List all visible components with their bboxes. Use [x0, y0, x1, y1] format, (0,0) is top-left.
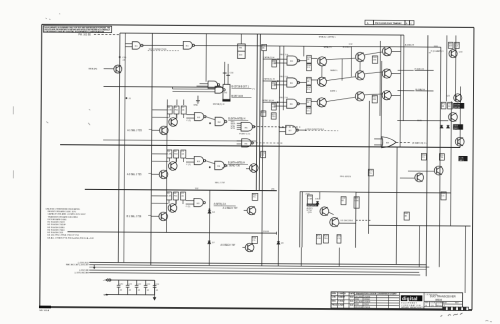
gate E5A	[241, 122, 255, 131]
svg-text:GND: GND	[193, 105, 198, 107]
spine third	[262, 51, 264, 266]
svg-text:1.5K: 1.5K	[354, 200, 359, 202]
svg-text:SEL J 737: SEL J 737	[215, 182, 226, 184]
svg-text:REC 1 H: REC 1 H	[280, 54, 289, 56]
rail H3 end tick	[275, 232, 277, 235]
svg-text:7.5K: 7.5K	[308, 198, 313, 200]
svg-text:C23: C23	[146, 284, 149, 286]
gate E2B	[215, 86, 225, 93]
E2B input b	[172, 90, 214, 92]
svg-text:.01: .01	[155, 290, 158, 292]
resistor box block-d	[337, 235, 341, 244]
resistor box r2 y149.5	[174, 150, 179, 158]
resistor box right-d	[448, 102, 453, 109]
resistor box gate row y60.3	[272, 60, 277, 67]
E5B output dashed	[252, 142, 283, 144]
power bus BK	[89, 270, 419, 272]
transistor pair-b y105.5	[159, 126, 168, 135]
gate E2A	[208, 81, 220, 88]
power bus +15V	[89, 262, 426, 264]
vertical rail S	[459, 86, 461, 147]
array vert c1	[341, 59, 343, 81]
svg-text:10-4: 10-4	[350, 296, 354, 299]
resistor box right-h	[441, 192, 446, 200]
array link c1c2 r1	[327, 58, 356, 60]
transistor block Q20	[320, 207, 329, 216]
TM100 stub	[240, 34, 242, 44]
transistor right Q15	[415, 173, 424, 182]
gate in b y191.5	[186, 203, 194, 205]
E8 input a	[374, 138, 383, 140]
svg-text:DEC6534: DEC6534	[355, 307, 362, 309]
transistor pair-b y191.5	[159, 212, 168, 221]
svg-text:C (1): C (1)	[186, 120, 191, 122]
A0 RECV base wire	[242, 246, 245, 248]
svg-text:A (MTA) 2 A: A (MTA) 2 A	[214, 203, 227, 206]
junction node rail	[126, 97, 128, 99]
capacitor C24	[153, 280, 157, 295]
svg-text:1.5K: 1.5K	[167, 153, 172, 155]
transistor array col2 row2	[355, 71, 364, 80]
E5B input 2	[237, 143, 242, 145]
distribution squares strip	[443, 307, 469, 310]
rail above H1	[103, 140, 256, 141]
gate E5B	[242, 139, 254, 147]
diode D2	[208, 241, 211, 244]
gate input wire c y60.3	[274, 62, 287, 64]
block out dashed	[356, 219, 371, 221]
gate E6 y103.4	[287, 99, 300, 108]
svg-text:DATE: DATE	[350, 292, 356, 295]
junction under gate y191.5	[209, 208, 211, 210]
svg-text:T.HOLT: T.HOLT	[338, 301, 345, 303]
node on rail A	[119, 56, 121, 58]
vertical rail H	[368, 101, 371, 234]
notes box top-left	[43, 26, 111, 34]
svg-text:D8 ALL OTHER PTS PIN 5=GND,PIN: D8 ALL OTHER PTS PIN 5=GND,PIN 10 A +10V	[47, 236, 94, 239]
cluster box drop a y149.5	[168, 158, 170, 162]
array wire in r3	[311, 100, 317, 102]
gate in a y105.5	[186, 114, 194, 116]
transistor right Q14	[434, 166, 443, 175]
transistor array col1 row3	[317, 98, 326, 107]
vertical rail G	[282, 46, 284, 110]
resistor box block-c	[323, 235, 328, 244]
bottom block outline	[300, 192, 356, 248]
mid horizontal rail H3	[68, 232, 277, 233]
gate E6 y60.3	[287, 56, 300, 65]
svg-text:BB A (H): BB A (H)	[89, 67, 98, 70]
power bus BD BM	[89, 273, 420, 275]
vertical rail N	[426, 35, 428, 276]
transistor pair-a y105.5	[169, 118, 178, 127]
resistor box array r1	[372, 56, 377, 64]
svg-text:1 MTB (1) H: 1 MTB (1) H	[263, 79, 275, 81]
transistor A1 SEND	[249, 164, 258, 173]
vertical rail A	[118, 33, 120, 262]
title block outer	[331, 292, 463, 309]
top horizontal rail	[120, 33, 404, 35]
svg-text:PW. 102 BD: PW. 102 BD	[78, 34, 91, 36]
svg-text:REC 2 H: REC 2 H	[279, 97, 288, 99]
array wire in r2	[311, 79, 317, 81]
svg-text:MD 100 A: MD 100 A	[39, 309, 49, 312]
power bus -15V	[89, 265, 429, 267]
svg-text:(MC): (MC)	[454, 128, 459, 130]
vertical rail O	[439, 47, 441, 267]
gate E7	[286, 125, 299, 134]
junction under gate y105.5	[209, 122, 211, 124]
cluster feed wire b y105.5	[152, 116, 168, 118]
svg-text:(H): (H)	[271, 189, 274, 191]
svg-text:PFG 05R20: PFG 05R20	[340, 176, 352, 178]
svg-text:(MC)H: (MC)H	[454, 107, 460, 109]
output wire y149.5	[228, 163, 248, 165]
rail into gate pair	[104, 85, 223, 88]
svg-text:C21: C21	[128, 284, 131, 286]
diode right D21	[447, 125, 450, 128]
cluster box drop c y149.5	[182, 158, 184, 162]
resistor box right-f	[439, 154, 444, 161]
svg-text:COPYRIGHT 1965 BY DIGITAL EQUI: COPYRIGHT 1965 BY DIGITAL EQUIPMENT CORP…	[44, 30, 105, 33]
frame right border	[472, 27, 474, 309]
gate right y149.5	[215, 161, 227, 169]
transistor A1 RECV	[247, 206, 256, 215]
resistor box spine-a	[261, 111, 266, 116]
svg-text:B (MTA+MTB) H: B (MTA+MTB) H	[228, 161, 245, 164]
cluster box drop b y105.5	[175, 114, 177, 118]
E2B input riser	[172, 87, 174, 89]
resistor box spine top	[262, 44, 267, 50]
A1 RECV base wire	[244, 209, 247, 211]
array col1 link vert	[321, 66, 323, 77]
svg-text:153 R: 153 R	[263, 231, 269, 233]
E5A input 3	[237, 126, 241, 128]
E7 input a	[279, 127, 285, 129]
vertical rail B	[124, 33, 126, 262]
output row 2 wire	[231, 97, 251, 99]
block inner wire	[319, 192, 321, 200]
resistor box right-a	[448, 42, 453, 48]
digital logo	[401, 295, 423, 301]
resistor box r3 y191.5	[181, 192, 186, 200]
transistor pair-b y149.5	[159, 170, 168, 179]
cap bank bottom rail	[106, 293, 154, 295]
array col2 link vert	[359, 62, 361, 71]
vertical rail R	[454, 35, 456, 101]
out wire B05A2 b	[398, 90, 415, 92]
spine left	[256, 34, 257, 190]
svg-text:F (CLAMP) 1: F (CLAMP) 1	[431, 50, 445, 53]
svg-text:.01: .01	[137, 290, 140, 292]
gate E1A input 1	[125, 43, 132, 45]
frame bottom-left dark segment	[39, 306, 51, 309]
cap bank top rail	[106, 279, 154, 281]
gate E1B	[183, 41, 194, 49]
revision strip boxes	[365, 20, 414, 25]
resistor box r1 y149.5	[167, 150, 172, 158]
E2A input a	[200, 83, 208, 85]
rail H2 right segment	[356, 191, 451, 194]
svg-text:.01: .01	[146, 290, 149, 292]
frame bottom border thick	[39, 306, 472, 311]
transistor right Q13	[455, 137, 464, 146]
svg-text:A 05B2 L: A 05B2 L	[343, 45, 353, 48]
svg-text:MTA+2 L: MTA+2 L	[324, 46, 333, 49]
wire to Q15	[400, 177, 415, 179]
gate input wire b y60.3	[278, 58, 287, 60]
array link c2c3 r3	[364, 94, 382, 95]
gate input wire a y82.2	[263, 80, 278, 82]
vertical rail J	[395, 147, 398, 264]
resistor box out-a y82.2	[306, 77, 311, 85]
wire to Q14	[408, 170, 434, 172]
array out wire r3	[391, 94, 400, 96]
resistor box right-c	[441, 102, 446, 109]
cluster feed wire b y191.5	[152, 202, 168, 204]
resistor box r2 y191.5	[173, 192, 178, 200]
vertical stub above gate pair	[205, 34, 207, 82]
ground	[196, 96, 200, 104]
E5A input 4	[237, 128, 241, 130]
gate mid y105.5	[194, 112, 206, 120]
diode D1	[208, 211, 211, 214]
resistor box out-a y60.3	[307, 55, 312, 63]
svg-text:2N6534: 2N6534	[364, 307, 370, 309]
cluster box drop b y191.5	[175, 200, 177, 204]
diode rail F	[277, 241, 280, 244]
capacitor C22	[135, 280, 139, 295]
svg-text:C O R P O R A T I O N: C O R P O R A T I O N	[401, 304, 421, 307]
svg-text:A 1 RECV 737: A 1 RECV 737	[223, 207, 239, 210]
highlighted label CD2	[453, 124, 463, 129]
svg-text:C22: C22	[137, 284, 140, 286]
svg-text:B&BO L: B&BO L	[330, 70, 338, 72]
svg-text:TM: TM	[239, 47, 242, 49]
resistor box gate row y82.2	[272, 82, 277, 89]
gate E6 y82.2	[287, 78, 300, 87]
gate input wire c y82.2	[274, 84, 287, 86]
vertical rail I	[380, 61, 383, 147]
transistor pair-a y191.5	[168, 204, 177, 213]
svg-text:A 05BL R: A 05BL R	[405, 44, 415, 47]
page edge marks	[13, 106, 14, 178]
output wire y191.5	[214, 205, 236, 207]
gate output wire y60.3	[299, 60, 307, 62]
gate E1A	[132, 42, 143, 50]
module box TM100	[238, 44, 246, 59]
link gates y105.5	[205, 117, 215, 120]
svg-text:10-6: 10-6	[350, 301, 354, 303]
tick A05BL	[434, 45, 438, 47]
svg-text:MTB2 (0) H: MTB2 (0) H	[262, 100, 274, 102]
svg-text:(MC): (MC)	[459, 160, 464, 162]
resistor box recv-b	[252, 236, 258, 243]
resistor box block-b	[316, 234, 321, 244]
gate input wire b y103.4	[278, 101, 287, 103]
resistor box out-b y60.3	[307, 64, 312, 71]
resistor box recv-a	[252, 193, 258, 200]
svg-text:+10V: +10V	[305, 194, 311, 196]
wire E1A out to E1B	[142, 44, 183, 46]
cluster box drop a y105.5	[169, 114, 171, 118]
resistor box right-g	[404, 212, 409, 220]
cluster A riser2	[183, 100, 185, 105]
svg-text:A MX L: A MX L	[330, 90, 338, 93]
highlighted label C MC	[459, 156, 468, 161]
gate mid y149.5	[194, 156, 206, 164]
sel input wire y191.5	[151, 215, 159, 217]
svg-text:.01: .01	[119, 290, 122, 292]
junction input y60.3	[277, 58, 279, 60]
right lower rail	[369, 224, 471, 227]
gate in a y149.5	[186, 158, 194, 160]
svg-text:SET(MC)L: SET(MC)L	[307, 205, 317, 207]
svg-text:LTC PW 102 BD: LTC PW 102 BD	[426, 294, 439, 296]
pencil mark bottom-right page corner	[485, 320, 492, 321]
svg-text:(+10V) BD,BM: (+10V) BD,BM	[75, 272, 89, 274]
vertical rail E	[208, 190, 211, 265]
cluster box drop c y191.5	[182, 200, 184, 204]
power bus aux	[89, 267, 426, 269]
gate output wire y82.2	[299, 82, 307, 84]
cap bank gnd node	[106, 294, 108, 296]
resistor box block-a	[307, 195, 312, 205]
transistor right Q10	[449, 49, 457, 57]
block out wire	[339, 222, 356, 224]
svg-text:REC 0 H: REC 0 H	[280, 76, 289, 78]
E5B input 1	[237, 140, 242, 142]
highlighted label SET MC	[307, 204, 319, 207]
transistor pair-a y149.5	[168, 162, 177, 171]
gate right y105.5	[215, 117, 227, 125]
svg-text:1.5K: 1.5K	[167, 195, 172, 197]
cap bank right drop	[154, 280, 156, 294]
array vert c2	[350, 47, 352, 77]
transistor array col3 row3	[382, 91, 391, 100]
resistor box r3 y105.5	[181, 106, 186, 114]
junction input y82.2	[277, 80, 279, 82]
E2A input b	[197, 85, 208, 87]
block leg 2	[338, 248, 340, 267]
resistor box spine-c	[261, 151, 266, 157]
cap C14 lead 2	[227, 64, 229, 85]
transistor A0 RECV	[245, 243, 254, 252]
gate input wire a y103.4	[262, 101, 277, 103]
svg-text:CHK: CHK	[332, 297, 337, 299]
gate in b y105.5	[186, 117, 194, 119]
mid horizontal rail H1	[60, 145, 460, 148]
svg-text:C24: C24	[155, 284, 158, 286]
cluster A riser	[176, 99, 178, 104]
array link c1c2 r2	[326, 77, 355, 81]
transistor array col1 row1	[317, 57, 326, 66]
riser to gate y191.5	[175, 200, 177, 204]
svg-text:B 05A2 H: B 05A2 H	[416, 88, 426, 91]
sel input wire y105.5	[152, 129, 160, 131]
svg-text:(E MATCH) 1 L: (E MATCH) 1 L	[412, 141, 428, 144]
clamp tick	[429, 52, 431, 54]
title block dividers	[331, 292, 463, 309]
resistor box spine-b	[271, 113, 276, 119]
resistor box out-b y82.2	[306, 86, 311, 93]
block link q20 q21	[329, 212, 334, 214]
underline no connection	[148, 50, 179, 52]
transistor right Q12	[448, 113, 457, 122]
frame top border	[42, 24, 474, 27]
E8 input b	[374, 144, 383, 146]
svg-text:1.5K: 1.5K	[168, 109, 173, 111]
riser to gate y105.5	[176, 114, 178, 118]
cap bank ground arrow	[153, 295, 156, 300]
resistor box r1 y105.5	[167, 106, 172, 114]
input tick y105.5	[149, 128, 152, 130]
gate E1A input 2	[125, 46, 132, 48]
register box dark band	[222, 99, 230, 101]
svg-text:1.5K: 1.5K	[317, 238, 322, 240]
cap C14 lead 1	[224, 62, 226, 85]
sel input wire y149.5	[151, 173, 159, 175]
array out wire r2	[391, 73, 400, 75]
resistor box r2 y105.5	[174, 106, 179, 114]
capacitor C23	[144, 280, 148, 295]
resistor box right-e	[421, 153, 426, 160]
vertical rail P	[445, 35, 447, 101]
node under diode D2	[209, 242, 210, 243]
Q1 base wire	[104, 68, 114, 70]
transistor Q1	[114, 65, 122, 73]
resistor box block-e	[341, 197, 346, 205]
transistor array col3 row1	[382, 47, 391, 56]
cap bank left arrow	[106, 278, 111, 281]
svg-text:A 0 SEL J 735: A 0 SEL J 735	[127, 173, 142, 176]
cluster feed wire b y149.5	[152, 160, 168, 162]
vertical rail T	[464, 226, 466, 293]
svg-text:C (1): C (1)	[186, 164, 191, 166]
or-gate E8 big	[382, 137, 397, 148]
svg-text:D.RAY: D.RAY	[338, 304, 344, 307]
svg-text:B (MTA+MTB) H: B (MTA+MTB) H	[228, 117, 245, 120]
link gates y149.5	[205, 161, 215, 164]
diode block D30	[316, 202, 319, 205]
cluster feed wire a y105.5	[152, 109, 167, 111]
E7 output	[297, 129, 306, 131]
input tick y191.5	[148, 214, 151, 216]
svg-text:W504: W504	[435, 298, 442, 302]
dashed leader to top rail	[94, 34, 120, 36]
frame left border	[40, 24, 42, 306]
resistor box r3 y149.5	[181, 150, 186, 158]
long function dashed	[305, 130, 338, 132]
vertical rail L	[402, 35, 405, 121]
transistor right Q11	[454, 94, 462, 102]
svg-text:BAC ACC AT (-15V) BT: BAC ACC AT (-15V) BT	[66, 263, 89, 266]
gate input wire c y103.4	[274, 105, 287, 107]
svg-text:A 1 SEND 736: A 1 SEND 736	[225, 165, 241, 168]
mid horizontal rail H2	[85, 189, 277, 190]
capacitor C20	[117, 280, 121, 295]
svg-text:POINT 1 (*): POINT 1 (*)	[239, 133, 250, 135]
gate mid y191.5	[194, 198, 206, 206]
svg-text:ENG: ENG	[332, 301, 337, 303]
resistor box r1 y191.5	[167, 192, 172, 200]
vertical rail M	[418, 226, 420, 267]
svg-text:DIST: DIST	[443, 303, 447, 305]
resistor box mid	[368, 169, 373, 176]
svg-text:R.BEST: R.BEST	[338, 297, 346, 299]
svg-text:1 MTA (1) H: 1 MTA (1) H	[263, 56, 275, 59]
out wire B05A2	[416, 90, 434, 92]
